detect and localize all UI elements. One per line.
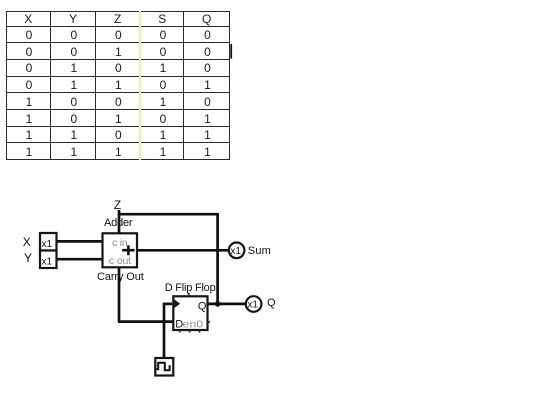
- svg-text:Z: Z: [114, 198, 121, 212]
- svg-text:x1: x1: [42, 239, 53, 250]
- svg-text:x1: x1: [230, 246, 241, 257]
- svg-text:x1: x1: [247, 300, 258, 311]
- svg-text:X: X: [23, 235, 31, 249]
- svg-text:c in: c in: [112, 237, 128, 249]
- svg-text:x1: x1: [42, 257, 53, 268]
- svg-text:c out: c out: [109, 255, 131, 267]
- svg-text:Q: Q: [198, 300, 207, 312]
- svg-text:D Flip Flop: D Flip Flop: [165, 282, 216, 294]
- svg-text:Q: Q: [267, 297, 276, 309]
- svg-text:Adder: Adder: [104, 217, 133, 229]
- svg-text:en0: en0: [182, 318, 203, 330]
- svg-text:Carry Out: Carry Out: [97, 271, 144, 283]
- svg-text:Y: Y: [24, 251, 32, 265]
- svg-text:Sum: Sum: [248, 245, 271, 257]
